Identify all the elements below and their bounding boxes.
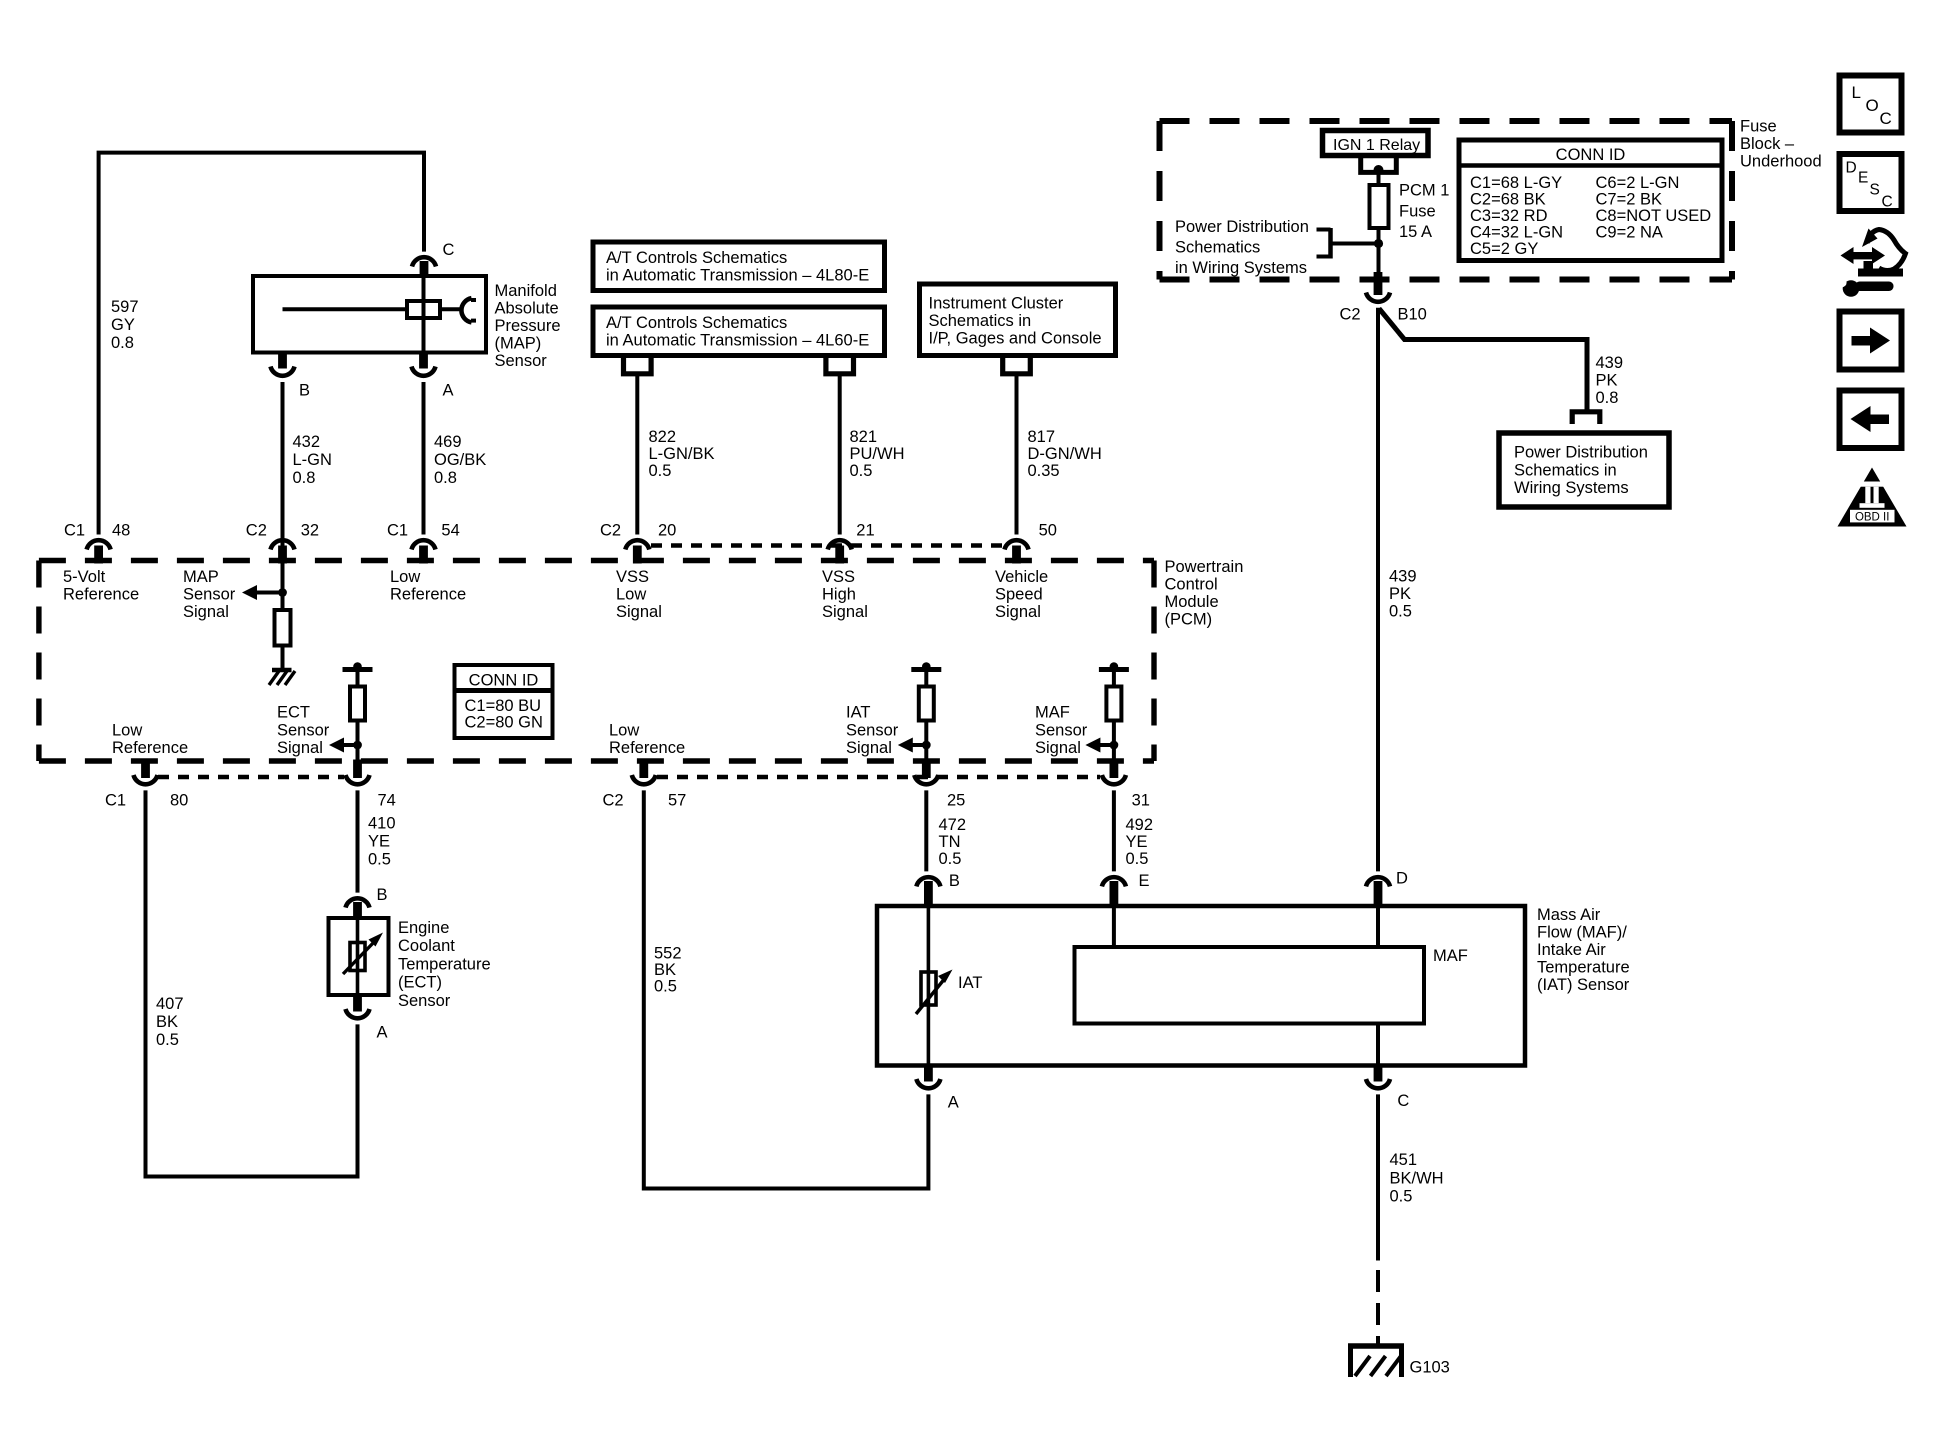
icon OBD II triangle <box>1838 468 1907 527</box>
svg-text:BK: BK <box>654 961 676 979</box>
svg-text:472: 472 <box>939 816 967 834</box>
svg-text:YE: YE <box>1126 833 1148 851</box>
connector 25 (PCM bottom) <box>914 760 938 785</box>
svg-text:Sensor: Sensor <box>183 586 236 604</box>
svg-text:IGN 1 Relay: IGN 1 Relay <box>1333 137 1420 154</box>
svg-text:Sensor: Sensor <box>277 722 330 740</box>
svg-text:C: C <box>1882 194 1893 211</box>
svg-text:Reference: Reference <box>63 586 139 604</box>
svg-text:Control: Control <box>1165 576 1218 594</box>
svg-text:0.5: 0.5 <box>939 850 962 868</box>
wire fuse to B10 <box>1377 244 1381 273</box>
svg-text:C8=NOT USED: C8=NOT USED <box>1596 207 1712 225</box>
MAP sensor element (pressure transducer) <box>283 277 477 353</box>
svg-text:C: C <box>1397 1092 1409 1110</box>
connector pin C (MAF) <box>1366 1066 1390 1089</box>
PCM dashed border <box>39 561 1154 762</box>
svg-text:ECT: ECT <box>277 704 310 722</box>
svg-text:L-GN/BK: L-GN/BK <box>649 445 715 463</box>
svg-text:VSS: VSS <box>616 568 649 586</box>
wire 451 BK/WH 0.5 <box>1376 1094 1380 1344</box>
wire branch to power distribution bracket <box>1317 228 1379 259</box>
junction below fuse <box>1374 239 1383 248</box>
svg-text:Mass Air: Mass Air <box>1537 906 1601 924</box>
svg-text:Manifold: Manifold <box>495 282 557 300</box>
icon DESC box <box>1840 154 1902 211</box>
svg-text:C4=32 L-GN: C4=32 L-GN <box>1470 224 1563 242</box>
svg-text:0.5: 0.5 <box>1390 1188 1413 1206</box>
svg-text:552: 552 <box>654 945 682 963</box>
dotted connector line C1 (bottom left row) <box>158 775 344 779</box>
svg-text:32: 32 <box>301 522 319 540</box>
MAF inner module box <box>1075 907 1425 1064</box>
svg-text:Signal: Signal <box>846 739 892 757</box>
svg-text:439: 439 <box>1596 354 1624 372</box>
wire 821 PU/WH 0.5 <box>838 374 842 535</box>
svg-text:0.5: 0.5 <box>1389 603 1412 621</box>
svg-text:Module: Module <box>1165 593 1219 611</box>
svg-text:0.8: 0.8 <box>434 469 457 487</box>
CONN ID box (PCM connectors) <box>455 665 553 738</box>
svg-text:Signal: Signal <box>616 603 662 621</box>
svg-text:Speed: Speed <box>995 586 1043 604</box>
svg-text:O: O <box>1866 96 1879 115</box>
svg-text:54: 54 <box>441 522 459 540</box>
svg-text:25: 25 <box>947 792 965 810</box>
svg-text:E: E <box>1139 872 1150 890</box>
svg-text:C2=68 BK: C2=68 BK <box>1470 191 1546 209</box>
wire 472 TN 0.5 <box>924 790 928 871</box>
svg-text:High: High <box>822 586 856 604</box>
svg-text:MAP: MAP <box>183 568 219 586</box>
svg-text:822: 822 <box>649 428 677 446</box>
svg-text:VSS: VSS <box>822 568 855 586</box>
svg-text:439: 439 <box>1389 568 1417 586</box>
icon LOC box <box>1840 76 1902 133</box>
connector pin B (IAT in MAF box) <box>916 877 940 907</box>
svg-text:Powertrain: Powertrain <box>1165 558 1244 576</box>
ground (MAP sensor signal pull-down) <box>269 670 295 685</box>
svg-text:Sensor: Sensor <box>1035 722 1088 740</box>
svg-text:0.8: 0.8 <box>111 334 134 352</box>
svg-text:C1=68 L-GY: C1=68 L-GY <box>1470 174 1562 192</box>
svg-text:C2: C2 <box>246 522 267 540</box>
svg-text:Low: Low <box>112 722 142 740</box>
svg-text:YE: YE <box>368 833 390 851</box>
MAP sensor box <box>253 276 486 353</box>
icon forward arrow box <box>1840 312 1902 370</box>
svg-text:48: 48 <box>112 522 130 540</box>
svg-text:Reference: Reference <box>609 739 685 757</box>
svg-text:Reference: Reference <box>390 586 466 604</box>
svg-text:432: 432 <box>293 433 321 451</box>
svg-text:15 A: 15 A <box>1399 223 1432 241</box>
svg-text:L: L <box>1852 83 1861 102</box>
CONN ID table (fuse block) <box>1459 140 1722 261</box>
svg-text:Coolant: Coolant <box>398 937 455 955</box>
connector C1 80 (PCM bottom) <box>134 760 158 785</box>
svg-text:21: 21 <box>856 522 874 540</box>
bracket under 4L60-E box (wire 822) <box>624 356 652 374</box>
box A/T Controls Schematics 4L60-E <box>593 307 885 356</box>
svg-text:L-GN: L-GN <box>293 451 332 469</box>
IAT thermistor symbol <box>916 907 953 1064</box>
svg-text:0.35: 0.35 <box>1028 462 1060 480</box>
svg-text:20: 20 <box>658 522 676 540</box>
connector pin A (ECT sensor) <box>346 995 370 1018</box>
ECT sensor box <box>329 918 389 995</box>
svg-text:Underhood: Underhood <box>1740 153 1822 171</box>
connector 21 (PCM top) <box>828 540 852 563</box>
relay output bracket <box>1361 158 1397 186</box>
dotted connector line C2 (bottom row) <box>657 775 1100 779</box>
svg-text:C: C <box>443 241 455 259</box>
bracket above Power Distribution box <box>1572 412 1600 424</box>
svg-text:Engine: Engine <box>398 919 449 937</box>
svg-text:451: 451 <box>1390 1151 1418 1169</box>
Fuse Block - Underhood dashed border <box>1160 121 1733 280</box>
svg-text:Intake Air: Intake Air <box>1537 941 1606 959</box>
svg-text:A: A <box>443 382 454 400</box>
svg-text:Block –: Block – <box>1740 135 1795 153</box>
svg-text:Instrument Cluster: Instrument Cluster <box>929 295 1064 313</box>
svg-text:Schematics in: Schematics in <box>1514 461 1617 479</box>
svg-text:C1=80 BU: C1=80 BU <box>465 697 542 715</box>
svg-text:Sensor: Sensor <box>398 992 451 1010</box>
Power Distribution Schematics in Wiring Systems box <box>1499 433 1669 507</box>
svg-text:C2: C2 <box>600 522 621 540</box>
svg-text:74: 74 <box>378 792 396 810</box>
svg-text:CONN ID: CONN ID <box>469 672 539 690</box>
svg-text:Flow (MAF)/: Flow (MAF)/ <box>1537 924 1627 942</box>
svg-text:G103: G103 <box>1410 1359 1450 1377</box>
svg-text:Temperature: Temperature <box>1537 959 1630 977</box>
wire 439 PK 0.8 branch <box>1379 309 1587 410</box>
svg-text:(PCM): (PCM) <box>1165 611 1213 629</box>
svg-text:B: B <box>377 886 388 904</box>
svg-text:A/T Controls Schematics: A/T Controls Schematics <box>606 314 787 332</box>
svg-text:Signal: Signal <box>822 603 868 621</box>
fuse PCM 1 15 A <box>1370 185 1389 244</box>
svg-text:A/T Controls Schematics: A/T Controls Schematics <box>606 249 787 267</box>
box Instrument Cluster Schematics <box>920 284 1116 356</box>
svg-text:C7=2 BK: C7=2 BK <box>1596 191 1663 209</box>
svg-text:Reference: Reference <box>112 739 188 757</box>
connector pin B (ECT sensor) <box>346 898 370 920</box>
svg-text:OBD II: OBD II <box>1855 512 1890 524</box>
svg-text:OG/BK: OG/BK <box>434 451 486 469</box>
svg-text:0.5: 0.5 <box>156 1031 179 1049</box>
connector pin B (MAP sensor) <box>271 353 295 376</box>
svg-text:MAF: MAF <box>1433 947 1468 965</box>
svg-text:in Wiring Systems: in Wiring Systems <box>1175 259 1307 277</box>
svg-text:0.5: 0.5 <box>649 462 672 480</box>
bracket under Instrument Cluster box (wire 817) <box>1003 356 1031 374</box>
wire 492 YE 0.5 <box>1112 790 1116 871</box>
svg-text:C9=2 NA: C9=2 NA <box>1596 224 1663 242</box>
svg-text:C1: C1 <box>64 522 85 540</box>
MAF/IAT sensor box <box>877 906 1525 1066</box>
svg-text:D: D <box>1846 160 1857 177</box>
svg-text:in Automatic Transmission – 4L: in Automatic Transmission – 4L80-E <box>606 267 869 285</box>
ground G103 <box>1348 1346 1404 1377</box>
svg-text:Low: Low <box>616 586 646 604</box>
svg-text:C2: C2 <box>1340 306 1361 324</box>
wire 439 PK 0.5 (B10 to D) <box>1376 308 1380 872</box>
svg-text:B10: B10 <box>1398 306 1427 324</box>
IAT sensor signal pull-up resistor <box>911 667 941 672</box>
connector pin C (MAP sensor) <box>412 257 436 277</box>
wire 469 OG/BK 0.8 <box>422 382 426 535</box>
svg-text:TN: TN <box>939 833 961 851</box>
svg-text:5-Volt: 5-Volt <box>63 568 106 586</box>
connector pin A (IAT in MAF box) <box>916 1066 940 1089</box>
wire 410 YE 0.5 <box>356 790 360 892</box>
svg-text:Power Distribution: Power Distribution <box>1514 444 1648 462</box>
connector C2 32 (PCM top) <box>271 540 295 563</box>
svg-text:A: A <box>377 1024 388 1042</box>
box A/T Controls Schematics 4L80-E <box>593 242 885 291</box>
svg-text:407: 407 <box>156 995 184 1013</box>
svg-text:Fuse: Fuse <box>1399 202 1436 220</box>
svg-text:817: 817 <box>1028 428 1056 446</box>
connector pin D (MAF) <box>1366 877 1390 907</box>
dotted connector line C2 (top row) <box>651 543 1003 547</box>
svg-text:A: A <box>948 1094 959 1112</box>
svg-text:PK: PK <box>1389 585 1411 603</box>
connector C1 48 (PCM top) <box>87 540 111 563</box>
connector C1 54 (PCM top) <box>412 540 436 563</box>
svg-text:Signal: Signal <box>995 603 1041 621</box>
svg-text:Wiring Systems: Wiring Systems <box>1514 479 1629 497</box>
wire 597 GY 0.8 (5-volt reference loop) <box>99 153 424 535</box>
svg-text:D: D <box>1396 870 1408 888</box>
svg-text:(ECT): (ECT) <box>398 974 442 992</box>
ECT thermistor symbol <box>343 920 383 993</box>
wire 552 BK 0.5 <box>644 790 929 1188</box>
MAF sensor signal pull-up resistor <box>1099 667 1129 672</box>
svg-text:Temperature: Temperature <box>398 955 491 973</box>
svg-text:597: 597 <box>111 298 139 316</box>
svg-text:C2: C2 <box>603 792 624 810</box>
svg-text:Power Distribution: Power Distribution <box>1175 218 1309 236</box>
connector 74 (PCM bottom) <box>346 760 370 785</box>
svg-text:Sensor: Sensor <box>495 352 548 370</box>
svg-text:31: 31 <box>1132 792 1150 810</box>
svg-text:0.5: 0.5 <box>654 978 677 996</box>
svg-text:PU/WH: PU/WH <box>850 445 905 463</box>
connector C2 20 (PCM top) <box>625 540 649 563</box>
svg-text:469: 469 <box>434 433 462 451</box>
svg-text:B: B <box>949 872 960 890</box>
svg-text:PCM 1: PCM 1 <box>1399 182 1449 200</box>
svg-text:CONN ID: CONN ID <box>1556 146 1626 164</box>
svg-text:0.5: 0.5 <box>368 851 391 869</box>
svg-text:C: C <box>1880 109 1892 128</box>
svg-text:50: 50 <box>1039 522 1057 540</box>
bracket under 4L60-E box (wire 821) <box>826 356 854 374</box>
svg-text:(MAP): (MAP) <box>495 335 542 353</box>
svg-text:C2=80 GN: C2=80 GN <box>465 714 543 732</box>
svg-text:BK: BK <box>156 1013 178 1031</box>
wire 407 BK 0.5 <box>146 790 358 1176</box>
svg-text:Absolute: Absolute <box>495 300 559 318</box>
svg-text:Signal: Signal <box>277 739 323 757</box>
svg-text:GY: GY <box>111 316 135 334</box>
PCM internal MAP sensor signal circuit <box>242 535 291 669</box>
svg-text:C6=2 L-GN: C6=2 L-GN <box>1596 174 1680 192</box>
svg-text:Pressure: Pressure <box>495 317 561 335</box>
svg-text:0.8: 0.8 <box>1596 389 1619 407</box>
svg-text:PK: PK <box>1596 372 1618 390</box>
icon back arrow box <box>1840 391 1902 449</box>
svg-text:Signal: Signal <box>183 603 229 621</box>
svg-text:C3=32 RD: C3=32 RD <box>1470 207 1548 225</box>
connector pin E (MAF) <box>1102 877 1126 907</box>
svg-text:IAT: IAT <box>846 704 870 722</box>
svg-text:MAF: MAF <box>1035 704 1070 722</box>
svg-text:Schematics in: Schematics in <box>929 312 1032 330</box>
svg-text:57: 57 <box>668 792 686 810</box>
svg-text:IAT: IAT <box>958 974 982 992</box>
svg-text:Signal: Signal <box>1035 739 1081 757</box>
connector C2 B10 (fuse block bottom) <box>1366 272 1390 302</box>
ECT sensor signal pull-up resistor <box>343 667 373 672</box>
svg-text:in Automatic Transmission – 4L: in Automatic Transmission – 4L60-E <box>606 332 869 350</box>
connector C2 57 (PCM bottom) <box>632 760 656 785</box>
svg-text:0.8: 0.8 <box>293 469 316 487</box>
wire 822 L-GN/BK 0.5 <box>635 374 639 535</box>
svg-text:BK/WH: BK/WH <box>1390 1169 1444 1187</box>
svg-text:Schematics: Schematics <box>1175 239 1260 257</box>
svg-text:C1: C1 <box>387 522 408 540</box>
svg-text:I/P, Gages and Console: I/P, Gages and Console <box>929 330 1102 348</box>
svg-text:0.5: 0.5 <box>850 462 873 480</box>
svg-text:Low: Low <box>609 722 639 740</box>
svg-text:0.5: 0.5 <box>1126 850 1149 868</box>
svg-text:821: 821 <box>850 428 878 446</box>
IGN 1 Relay box <box>1323 131 1429 156</box>
icon wrench and arrows (service) <box>1837 229 1905 297</box>
svg-text:492: 492 <box>1126 816 1154 834</box>
svg-text:C1: C1 <box>105 792 126 810</box>
connector 31 (PCM bottom) <box>1102 760 1126 785</box>
connector pin A (MAP sensor) <box>412 353 436 376</box>
svg-text:Fuse: Fuse <box>1740 118 1777 136</box>
svg-text:Sensor: Sensor <box>846 722 899 740</box>
svg-text:410: 410 <box>368 815 396 833</box>
wire 432 L-GN 0.8 <box>281 382 285 535</box>
svg-text:E: E <box>1858 170 1868 187</box>
svg-text:80: 80 <box>170 792 188 810</box>
svg-text:S: S <box>1870 182 1880 199</box>
svg-text:B: B <box>299 382 310 400</box>
svg-text:D-GN/WH: D-GN/WH <box>1028 445 1102 463</box>
svg-text:C5=2 GY: C5=2 GY <box>1470 240 1538 258</box>
svg-text:Low: Low <box>390 568 420 586</box>
svg-text:Vehicle: Vehicle <box>995 568 1048 586</box>
svg-text:(IAT) Sensor: (IAT) Sensor <box>1537 976 1630 994</box>
wire 817 D-GN/WH 0.35 <box>1015 374 1019 535</box>
connector 50 (PCM top) <box>1005 540 1029 563</box>
